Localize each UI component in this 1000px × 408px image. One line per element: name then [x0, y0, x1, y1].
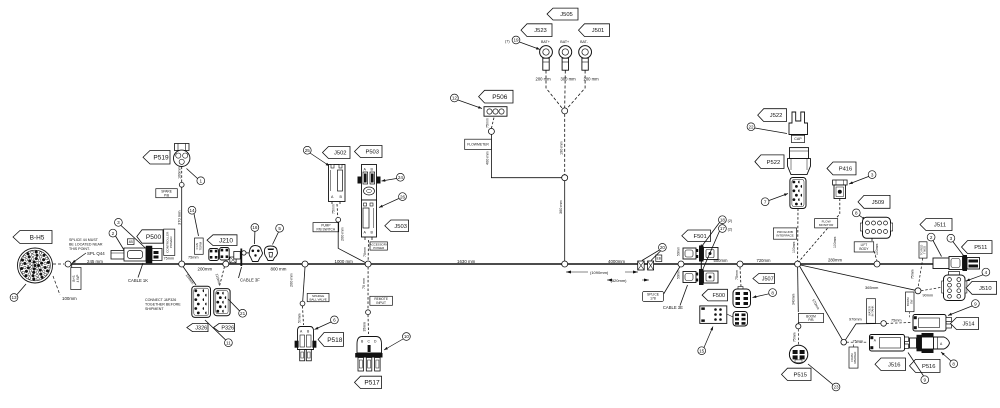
svg-text:75mm: 75mm — [735, 270, 739, 280]
leader balloon 9 P516 — [908, 353, 924, 376]
svg-text:200mm: 200mm — [198, 267, 213, 272]
connector B-H5 circular — [18, 248, 53, 283]
connector P519 — [174, 144, 190, 167]
wire to lamp 1 — [246, 252, 249, 254]
flag J523 — [521, 24, 552, 37]
svg-text:22: 22 — [748, 124, 754, 129]
svg-text:(7): (7) — [505, 40, 510, 44]
svg-text:17: 17 — [720, 226, 726, 231]
svg-text:110mm: 110mm — [185, 273, 195, 285]
splice P518 wire — [300, 301, 305, 306]
fuse holder F501 upper — [683, 246, 718, 262]
svg-text:P522: P522 — [767, 160, 781, 166]
svg-text:190 mm: 190 mm — [560, 141, 564, 155]
label box FLOW MONITOR — [815, 219, 838, 228]
svg-text:7: 7 — [764, 199, 767, 204]
svg-text:75mm: 75mm — [485, 118, 489, 128]
node B on bus — [223, 261, 229, 267]
balloon 14 — [188, 206, 196, 214]
balloon 3 — [115, 219, 123, 227]
leader balloon 11 — [205, 320, 226, 340]
svg-text:200 mm: 200 mm — [341, 227, 345, 241]
connector J502 — [329, 165, 346, 205]
svg-text:P511: P511 — [974, 245, 987, 251]
flag P416 — [827, 162, 856, 175]
svg-text:IN TANK: IN TANK — [871, 305, 875, 316]
fuse tie bar — [700, 245, 702, 285]
hub node on bus — [795, 261, 801, 267]
balloon 26 — [399, 193, 407, 201]
leader balloon 10 — [384, 339, 403, 350]
wire P519 down to splice — [181, 167, 183, 183]
svg-text:35mm: 35mm — [362, 322, 366, 332]
leader balloon 9 J514 — [948, 306, 972, 316]
connector J210 half A — [209, 249, 219, 261]
node A on bus — [179, 261, 185, 267]
connector P516 — [910, 333, 950, 353]
svg-text:BAT+: BAT+ — [560, 40, 569, 44]
splice Q44 — [65, 261, 71, 267]
svg-text:J523: J523 — [534, 28, 547, 34]
svg-text:P516: P516 — [922, 364, 936, 370]
wire J503 down dashed to bus — [367, 240, 369, 262]
svg-text:J501: J501 — [592, 28, 605, 34]
leader balloon 22 — [755, 128, 787, 134]
connector P522 — [788, 148, 811, 175]
label box TO RED vertical — [919, 242, 927, 258]
balloon 16 — [251, 224, 259, 232]
svg-text:SW: SW — [909, 299, 913, 304]
balloon 3 P416 — [868, 171, 876, 179]
flag J210 — [207, 235, 237, 246]
svg-text:9: 9 — [924, 377, 927, 382]
leader arrow to splice — [72, 253, 86, 263]
svg-text:300 mm: 300 mm — [561, 77, 577, 82]
wire node to J516 — [847, 341, 869, 343]
node I 365mm — [915, 288, 921, 294]
splice block 2 — [648, 261, 654, 270]
balloon 8 J509 — [852, 209, 860, 217]
balloon 6 — [331, 316, 339, 324]
svg-text:J509: J509 — [872, 200, 885, 206]
svg-text:75mm: 75mm — [793, 332, 797, 342]
flag F500 — [702, 289, 727, 301]
svg-text:70 mm: 70 mm — [362, 278, 366, 289]
balloon 9 P516 — [921, 376, 929, 384]
svg-text:26: 26 — [400, 194, 406, 199]
label box FOAM vertical — [849, 347, 858, 368]
svg-text:2: 2 — [112, 231, 115, 236]
leader splice178 — [664, 267, 680, 295]
leader balloon 8 J507 — [753, 294, 769, 298]
svg-text:CONNECT J&P326: CONNECT J&P326 — [145, 298, 176, 302]
balloon 4 right — [982, 268, 990, 276]
leader balloon 21 — [228, 299, 240, 311]
svg-text:J510: J510 — [979, 286, 992, 292]
node P506 branch — [488, 128, 494, 134]
svg-text:6: 6 — [333, 318, 336, 323]
flag J501 — [579, 24, 610, 37]
wire J509 to node H dashed — [872, 239, 877, 262]
svg-text:15: 15 — [699, 348, 705, 353]
wire node I to J510 dashed — [921, 287, 943, 291]
flag P517 — [355, 376, 382, 388]
fuse holder F501 lower — [683, 269, 718, 285]
svg-text:75mm: 75mm — [332, 204, 336, 214]
flag P506 — [479, 90, 513, 103]
svg-text:8: 8 — [771, 290, 774, 295]
lamp socket 16 — [249, 246, 262, 262]
svg-text:POWER: POWER — [373, 246, 384, 250]
wire BAT3 dashed — [568, 71, 586, 109]
ring terminal BAT+ — [559, 40, 572, 70]
svg-text:SPL Q44: SPL Q44 — [87, 251, 105, 256]
svg-text:J511: J511 — [934, 223, 946, 229]
svg-text:5: 5 — [278, 226, 281, 231]
svg-text:500mm: 500mm — [714, 258, 728, 263]
balloon 5 — [276, 224, 284, 232]
svg-text:J210: J210 — [219, 237, 233, 244]
svg-text:10: 10 — [404, 334, 410, 339]
svg-text:MONITOR: MONITOR — [819, 223, 834, 227]
label box REMOTE INPUT — [370, 296, 393, 305]
svg-text:SPLICE 44 MUST: SPLICE 44 MUST — [69, 238, 99, 242]
relay F500 — [700, 306, 727, 324]
node J516 — [841, 339, 847, 345]
wire BAT2 dashed — [564, 71, 567, 109]
svg-text:340mm: 340mm — [792, 294, 796, 305]
splice node for lamps — [242, 251, 246, 255]
svg-text:8: 8 — [952, 361, 955, 366]
svg-text:CABLE 3F: CABLE 3F — [240, 278, 260, 283]
small box EB — [656, 255, 662, 262]
svg-text:110mm: 110mm — [215, 273, 222, 285]
flag P515 — [782, 368, 812, 380]
balloon 12 — [451, 94, 459, 102]
splice J502 wire — [336, 217, 341, 222]
wire splice to P518 dashed — [303, 306, 304, 325]
svg-text:1630 mm: 1630 mm — [457, 259, 476, 264]
wire 970mm branch — [846, 324, 881, 340]
balloon 9 J514 — [972, 300, 980, 308]
svg-text:SHIPMENT: SHIPMENT — [145, 307, 164, 311]
svg-text:BAT-: BAT- — [580, 40, 589, 44]
svg-text:3: 3 — [117, 220, 120, 225]
flag J509 — [858, 195, 890, 208]
flag J326 — [187, 324, 208, 332]
label box PUMP P/B SWITCH — [313, 223, 339, 232]
svg-text:20: 20 — [660, 245, 666, 250]
svg-text:8: 8 — [855, 211, 858, 216]
flag J514 — [951, 318, 979, 330]
wire node B to P326 (dashed) — [220, 267, 225, 287]
splice box with X — [230, 257, 236, 263]
wire splice down and diagonal to bus node D — [338, 222, 368, 264]
svg-text:BE LOCATED NEAR: BE LOCATED NEAR — [69, 242, 103, 246]
svg-text:100mm: 100mm — [62, 296, 77, 301]
lamp socket 5 — [264, 246, 277, 261]
flag J510 — [966, 281, 996, 294]
svg-text:4 WP: 4 WP — [76, 275, 80, 283]
svg-text:MARKER: MARKER — [853, 352, 857, 364]
svg-text:P517: P517 — [364, 380, 380, 387]
balloon 3 right — [947, 234, 955, 242]
connector P506 — [484, 107, 507, 117]
flag P516 — [910, 359, 941, 372]
node J514 — [881, 321, 887, 327]
svg-text:75mm: 75mm — [164, 257, 175, 261]
svg-text:TOGETHER BEFORE: TOGETHER BEFORE — [145, 302, 181, 306]
stub wire below bus at x72 — [71, 264, 73, 289]
connector J503 — [362, 200, 377, 240]
leader cable 3E — [680, 285, 688, 306]
leader cable 3F — [239, 267, 242, 278]
svg-text:365mm: 365mm — [865, 285, 879, 290]
flag P511 — [962, 241, 993, 254]
leader balloon 23 — [808, 364, 833, 385]
svg-text:3: 3 — [950, 236, 953, 241]
leader balloon 14 — [194, 214, 199, 236]
label box SPARGE BALL VALVE — [307, 293, 329, 301]
svg-text:P506: P506 — [492, 94, 508, 101]
svg-text:100mm: 100mm — [177, 166, 181, 179]
label box LIFT BODY — [854, 242, 874, 252]
wire P416 to hub dashed — [799, 199, 840, 263]
wire node D down dashed — [367, 267, 369, 310]
svg-text:P503: P503 — [365, 150, 379, 156]
label box vertical B+S — [71, 268, 81, 290]
leader balloon 3 P416 — [849, 177, 869, 185]
flag J503 — [385, 220, 409, 232]
flag P503 — [355, 146, 383, 158]
svg-text:P519: P519 — [153, 155, 169, 162]
leader balloon 15 — [704, 327, 713, 348]
splice on P519 wire — [179, 182, 184, 187]
wire box to node I dashed — [918, 258, 923, 288]
node G on bus — [737, 261, 743, 267]
balloon 24 — [397, 173, 405, 181]
wire BAT1 dashed — [546, 71, 562, 109]
connector P416 — [833, 180, 848, 199]
balloon 2 right — [927, 233, 935, 241]
leader balloon 25 — [310, 153, 330, 166]
svg-text:F500: F500 — [713, 293, 726, 299]
wire hub down to boom node — [797, 267, 800, 312]
balloon 10 — [403, 333, 411, 341]
leader balloon 3 — [121, 226, 147, 250]
svg-text:J505: J505 — [560, 12, 573, 18]
leader balloon 5 — [273, 232, 279, 245]
svg-text:1000 mm: 1000 mm — [335, 259, 354, 264]
svg-text:4B: 4B — [129, 240, 134, 244]
connector P518 — [295, 327, 317, 361]
svg-text:800 mm: 800 mm — [271, 267, 287, 272]
leader balloon 6 — [315, 322, 332, 330]
flag J505 — [547, 8, 578, 20]
svg-text:CAP: CAP — [794, 137, 802, 141]
svg-text:P/B SWITCH: P/B SWITCH — [317, 227, 336, 231]
balloon 17 qty2 — [719, 225, 727, 233]
svg-text:200 mm: 200 mm — [290, 273, 294, 287]
node boom — [796, 324, 801, 329]
connector J326 — [192, 286, 211, 317]
node F on bus — [678, 261, 684, 267]
wire junction down dashed — [564, 114, 566, 175]
connector pair J511 P511 — [933, 255, 980, 271]
svg-text:INTERFACE: INTERFACE — [776, 234, 793, 238]
svg-text:21: 21 — [240, 311, 246, 316]
svg-text:50mm: 50mm — [677, 247, 681, 256]
svg-text:P500: P500 — [146, 234, 162, 241]
svg-text:CABLE 3E: CABLE 3E — [663, 305, 683, 310]
svg-text:19: 19 — [513, 38, 519, 43]
connector small mid — [234, 252, 241, 260]
svg-text:970mm: 970mm — [849, 318, 862, 322]
svg-text:CABLE 1K: CABLE 1K — [128, 278, 148, 283]
balloon 23 — [832, 383, 840, 391]
wire J502 down dashed — [336, 204, 339, 217]
svg-text:70mm: 70mm — [363, 247, 367, 257]
svg-text:100mm: 100mm — [833, 237, 837, 248]
ring terminal J501 BAT- — [579, 40, 592, 70]
flag P522 — [755, 155, 784, 169]
svg-text:P416: P416 — [839, 167, 853, 173]
balloon 1 — [197, 177, 205, 185]
svg-text:13: 13 — [11, 295, 17, 300]
wire hub to node I — [801, 265, 916, 290]
wire node C down — [303, 267, 305, 301]
svg-text:EB: EB — [657, 256, 661, 260]
svg-text:11: 11 — [226, 340, 231, 345]
svg-text:J507: J507 — [762, 276, 774, 282]
svg-text:INPUT: INPUT — [376, 301, 386, 305]
wire splice to P517 dashed — [367, 315, 370, 334]
label box FLOWMETER — [465, 139, 492, 149]
svg-text:4000mm: 4000mm — [608, 259, 625, 264]
svg-text:4: 4 — [985, 270, 988, 275]
svg-text:J503: J503 — [394, 224, 407, 230]
svg-text:POWER: POWER — [169, 236, 173, 248]
svg-text:(2): (2) — [728, 219, 733, 223]
svg-text:BODY: BODY — [859, 247, 869, 251]
flag J522 — [758, 109, 787, 122]
wire flowmeter horizontal — [491, 134, 561, 177]
connector J522 cap — [789, 112, 808, 135]
flag F501 — [682, 230, 711, 242]
svg-text:9: 9 — [974, 301, 977, 306]
svg-text:(520mm): (520mm) — [611, 278, 628, 283]
connector J507 — [733, 287, 751, 308]
connector J210 half B — [220, 248, 230, 261]
label box WINCH P/B — [156, 189, 178, 198]
svg-text:P326: P326 — [221, 326, 234, 332]
node C on bus — [302, 261, 308, 267]
balloon 21 — [239, 309, 247, 317]
wire P522 to hub dashed — [797, 209, 799, 262]
label box ACCESSORY POWER — [370, 242, 388, 250]
label box MOD BODY vertical — [906, 292, 915, 312]
flag P500 — [137, 230, 163, 243]
leader balloon 2 — [116, 236, 125, 250]
flag J502 — [323, 147, 351, 159]
label box CAP — [791, 135, 804, 142]
flag P519 — [143, 151, 170, 165]
flag P326 — [214, 324, 235, 332]
dim 520mm below bus — [607, 279, 649, 281]
connector J510 — [942, 272, 967, 301]
wire main harness bus — [68, 263, 933, 265]
flag J507 — [753, 274, 775, 284]
label box SPLICE 178 — [642, 291, 663, 301]
cable tie bar 3F — [240, 249, 242, 267]
svg-text:B-H5: B-H5 — [30, 234, 45, 241]
svg-text:400 mm: 400 mm — [486, 151, 490, 165]
connector P522 pins — [790, 178, 806, 209]
node D on bus — [365, 261, 371, 267]
node E on bus — [562, 261, 568, 267]
label box PROG JOB INTERFACE — [773, 228, 796, 239]
flowmeter junction node — [562, 175, 568, 181]
svg-text:100mm: 100mm — [792, 242, 796, 253]
leader cable 1k — [138, 263, 143, 278]
svg-text:7 NED: 7 NED — [923, 246, 927, 254]
dim 1090mm below bus — [566, 271, 638, 273]
label box BOOM P/B — [798, 313, 823, 322]
svg-text:P/B: P/B — [808, 318, 813, 322]
svg-text:178: 178 — [650, 297, 656, 301]
leader balloon 4 right — [966, 275, 983, 281]
leader balloon 7 — [769, 194, 788, 201]
svg-text:18: 18 — [720, 217, 726, 222]
connector P515 — [789, 345, 807, 363]
svg-text:90mm: 90mm — [923, 294, 934, 298]
ring terminal J523 BAT+ — [540, 40, 553, 70]
svg-text:75mm: 75mm — [853, 340, 864, 344]
svg-text:J516: J516 — [888, 362, 901, 368]
connector P503 — [358, 165, 381, 201]
svg-text:720mm: 720mm — [757, 258, 771, 263]
balloon 2 — [109, 229, 117, 237]
leader balloon 19 — [520, 42, 541, 50]
wire splice to bus — [181, 187, 183, 264]
svg-text:23: 23 — [833, 385, 839, 390]
svg-text:16: 16 — [252, 225, 258, 230]
svg-text:TERM: TERM — [199, 241, 203, 250]
splice P517 wire — [366, 310, 371, 315]
balloon 20 — [659, 244, 667, 252]
svg-text:FLOWMETER: FLOWMETER — [467, 143, 489, 147]
svg-text:245 mm: 245 mm — [87, 259, 103, 264]
svg-text:J326: J326 — [195, 326, 207, 332]
svg-text:370 mm: 370 mm — [176, 210, 181, 225]
svg-text:100mm: 100mm — [875, 244, 879, 255]
small box 4B — [128, 239, 135, 245]
svg-text:75mm: 75mm — [891, 319, 902, 323]
leader balloon 20 b — [651, 251, 661, 261]
leader balloon 20 a — [642, 250, 660, 261]
connector P517 — [355, 337, 382, 372]
label box CAN TERMINATOR vertical — [195, 238, 204, 254]
leader balloon 8 J509 — [859, 215, 866, 220]
connector J516 — [870, 335, 909, 352]
svg-text:1: 1 — [200, 178, 203, 183]
svg-text:J514: J514 — [963, 321, 975, 327]
svg-text:3: 3 — [871, 172, 874, 177]
svg-text:P518: P518 — [327, 337, 343, 344]
battery junction node — [562, 108, 568, 114]
wire junction to bus — [564, 181, 566, 261]
svg-text:P515: P515 — [793, 372, 807, 378]
